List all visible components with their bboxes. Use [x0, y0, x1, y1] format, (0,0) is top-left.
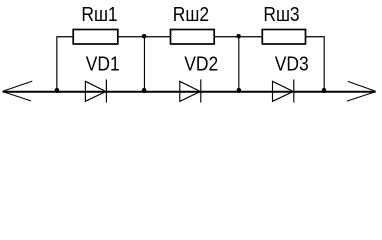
- svg-text:Rш3: Rш3: [263, 4, 299, 26]
- svg-text:VD2: VD2: [184, 54, 218, 76]
- svg-text:VD3: VD3: [275, 54, 309, 76]
- svg-text:Rш1: Rш1: [81, 4, 117, 26]
- svg-text:VD1: VD1: [86, 54, 120, 76]
- svg-text:Rш2: Rш2: [173, 4, 209, 26]
